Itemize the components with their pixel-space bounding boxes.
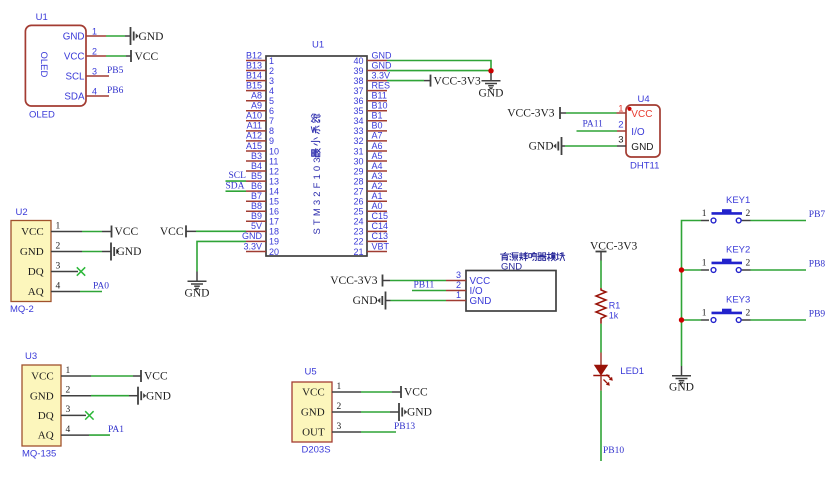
MCU right pin 25 A0 (353, 201, 387, 217)
MCU left pin 8 A11 (246, 121, 274, 137)
svg-text:B12: B12 (246, 50, 262, 60)
svg-text:PB5: PB5 (107, 66, 124, 76)
wire MCU pin19 to ground (197, 241, 246, 271)
MCU left pin 13 B5 (246, 171, 279, 187)
svg-text:33: 33 (353, 126, 363, 136)
svg-text:3: 3 (269, 76, 274, 86)
svg-text:U3: U3 (25, 351, 37, 362)
svg-text:VCC: VCC (302, 386, 325, 398)
MCU left pin 6 A9 (246, 101, 274, 117)
wire VCC-3V3 to U4 pin1 (566, 112, 617, 114)
MCU name CJK text 最小系统 (311, 114, 320, 157)
svg-text:35: 35 (353, 106, 363, 116)
svg-text:3: 3 (92, 67, 97, 77)
svg-text:VCC-3V3: VCC-3V3 (330, 275, 378, 287)
svg-text:2: 2 (269, 66, 274, 76)
svg-text:GND: GND (185, 288, 210, 300)
svg-text:GND: GND (669, 382, 694, 394)
wire U3 pin2 to GND (91, 395, 129, 397)
svg-text:A11: A11 (247, 121, 262, 131)
MCU right pin 30 A5 (353, 151, 387, 167)
svg-text:B5: B5 (251, 171, 262, 181)
no-connect X at U3 pin3 (85, 411, 93, 419)
wire R1 to LED1 (600, 324, 602, 353)
svg-text:4: 4 (56, 282, 61, 292)
wire U2 pin4 PA0 (80, 291, 102, 293)
power VCC-3V3 port at MCU pin38 (431, 75, 482, 88)
MCU right pin 35 B10 (353, 101, 387, 117)
svg-text:2: 2 (618, 120, 623, 131)
IC U4 DHT11 sensor (618, 94, 660, 171)
svg-text:16: 16 (269, 207, 279, 217)
MCU left pin 9 A12 (246, 131, 274, 147)
U3 pin3 stub with no-connect (61, 414, 86, 416)
svg-text:A4: A4 (372, 161, 383, 171)
wire SCL to MCU pin13 (226, 180, 247, 182)
svg-text:25: 25 (353, 207, 363, 217)
MCU right pin 34 B1 (353, 111, 387, 127)
svg-text:GND: GND (242, 231, 263, 241)
svg-text:B4: B4 (251, 161, 262, 171)
U4 pin1 stub (617, 112, 627, 114)
svg-text:15: 15 (269, 197, 279, 207)
svg-text:GND: GND (139, 31, 164, 43)
MCU left pin 10 A15 (246, 141, 279, 157)
ground GND port at U5 pin2 (399, 403, 432, 421)
MCU left pin 14 B6 (246, 181, 279, 197)
MCU left pin 12 B4 (246, 161, 279, 177)
MCU left pin 16 B8 (246, 201, 279, 217)
ground GND port at U2 pin2 (111, 243, 141, 261)
svg-text:U2: U2 (16, 207, 28, 218)
ground symbol below MCU pin19 (185, 281, 210, 299)
svg-text:VCC: VCC (31, 371, 54, 383)
svg-text:21: 21 (353, 247, 363, 257)
svg-text:SDA: SDA (64, 91, 85, 102)
svg-text:PB6: PB6 (107, 86, 124, 96)
svg-text:A2: A2 (372, 181, 383, 191)
svg-text:GND: GND (479, 88, 504, 100)
power VCC-3V3 port at U4 pin1 (507, 107, 560, 120)
svg-text:1: 1 (456, 290, 461, 300)
svg-text:31: 31 (353, 146, 363, 156)
MCU right pin 32 A7 (353, 131, 387, 147)
power VCC-3V3 port top of LED branch (590, 241, 638, 261)
U5 pin2 stub (332, 411, 361, 413)
IC U1 STM32F103 minimal system board (266, 40, 367, 257)
pin 4 stub U1 (86, 95, 109, 97)
svg-text:GND: GND (501, 261, 522, 272)
U4 pin3 stub (617, 145, 626, 147)
svg-text:C14: C14 (372, 221, 389, 231)
svg-text:OUT: OUT (302, 426, 325, 438)
svg-text:VCC: VCC (64, 51, 85, 62)
wire VCC to MCU pin18 (196, 230, 246, 232)
svg-text:VCC-3V3: VCC-3V3 (434, 75, 482, 87)
svg-text:A8: A8 (251, 91, 262, 101)
svg-text:3: 3 (56, 262, 61, 272)
svg-text:1: 1 (702, 259, 707, 269)
MCU right pin 29 A4 (353, 161, 387, 177)
svg-text:19: 19 (269, 237, 279, 247)
svg-text:GND: GND (301, 406, 325, 418)
MCU right pin 36 B11 (353, 91, 387, 107)
svg-text:OLED: OLED (29, 110, 55, 121)
svg-text:LED1: LED1 (620, 366, 644, 377)
MCU left pin 11 B3 (246, 151, 278, 167)
svg-text:14: 14 (269, 186, 279, 196)
svg-text:VCC: VCC (160, 226, 184, 238)
svg-text:1: 1 (269, 56, 274, 66)
svg-text:OLED: OLED (38, 52, 49, 78)
svg-text:11: 11 (269, 156, 278, 166)
svg-text:D203S: D203S (302, 445, 331, 456)
svg-text:GND: GND (353, 295, 378, 307)
svg-text:7: 7 (269, 116, 274, 126)
svg-text:GND: GND (146, 390, 171, 402)
svg-text:A6: A6 (372, 141, 383, 151)
svg-text:VCC: VCC (115, 226, 139, 238)
U2 pin3 stub with no-connect (51, 271, 78, 273)
svg-text:4: 4 (92, 87, 97, 97)
svg-text:27: 27 (353, 186, 363, 196)
svg-text:MQ-2: MQ-2 (10, 304, 34, 315)
pin 3 stub U1 (86, 75, 109, 77)
MCU left pin 4 B15 (246, 80, 274, 96)
svg-text:A5: A5 (372, 151, 383, 161)
power VCC-3V3 port at buzzer pin3 (330, 275, 382, 288)
ground symbol right of MCU (479, 73, 504, 100)
svg-text:U1: U1 (312, 40, 324, 51)
svg-text:5: 5 (269, 96, 274, 106)
U3 pin2 stub (61, 395, 91, 397)
svg-text:B3: B3 (251, 151, 262, 161)
svg-text:R1: R1 (609, 301, 621, 311)
svg-text:GND: GND (407, 407, 432, 419)
svg-text:B7: B7 (251, 191, 262, 201)
svg-text:DQ: DQ (28, 266, 44, 278)
junction dot GND net (488, 68, 493, 73)
U2 pin1 stub (51, 231, 82, 233)
svg-text:34: 34 (353, 116, 363, 126)
svg-text:SCL: SCL (229, 171, 247, 181)
wire KEY3 right to PB9 (751, 319, 807, 321)
svg-text:26: 26 (353, 197, 363, 207)
wire KEY2 left to bus (682, 269, 702, 271)
svg-text:A0: A0 (372, 201, 383, 211)
svg-text:A3: A3 (372, 171, 383, 181)
MCU left pin 7 A10 (246, 111, 274, 127)
svg-text:PB13: PB13 (394, 422, 415, 432)
svg-text:A7: A7 (372, 131, 383, 141)
svg-text:A9: A9 (251, 101, 262, 111)
svg-text:32: 32 (353, 136, 363, 146)
MCU right pin 28 A3 (353, 171, 387, 187)
svg-text:29: 29 (353, 166, 363, 176)
svg-text:17: 17 (269, 217, 279, 227)
MCU left pin 3 B14 (246, 70, 274, 86)
svg-text:3.3V: 3.3V (243, 241, 262, 251)
svg-text:VCC: VCC (144, 371, 168, 383)
MCU right pin 31 A6 (353, 141, 387, 157)
svg-text:PB11: PB11 (414, 281, 435, 291)
svg-text:24: 24 (353, 217, 363, 227)
power VCC port at MCU pin18 (160, 225, 186, 238)
svg-text:2: 2 (456, 280, 461, 290)
push button KEY1 (701, 195, 751, 223)
ground GND port at U1 pin1 (131, 27, 164, 45)
svg-text:B11: B11 (372, 91, 387, 101)
IC U1 OLED display connector (25, 12, 97, 121)
MCU right pin 26 A1 (353, 191, 387, 207)
svg-text:SDA: SDA (226, 181, 245, 191)
svg-text:VCC-3V3: VCC-3V3 (507, 108, 555, 120)
svg-text:5V: 5V (251, 221, 262, 231)
svg-text:GND: GND (372, 60, 393, 70)
wire U3 pin4 PA1 (89, 434, 110, 436)
svg-text:PB8: PB8 (809, 260, 826, 270)
wire U3 pin1 to VCC (91, 375, 133, 377)
svg-text:VCC: VCC (631, 109, 652, 120)
svg-text:KEY2: KEY2 (726, 245, 750, 256)
svg-text:RES: RES (372, 80, 391, 90)
svg-text:12: 12 (269, 166, 279, 176)
svg-text:38: 38 (353, 76, 363, 86)
wire VCC-3V3 to buzzer pin3 (390, 280, 446, 282)
svg-text:28: 28 (353, 176, 363, 186)
svg-text:GND: GND (470, 296, 492, 307)
MCU left pin 20 3.3V (243, 241, 279, 257)
wire KEY1 right to PB7 (751, 220, 807, 222)
MCU left pin 18 5V (246, 221, 279, 237)
svg-text:A1: A1 (372, 191, 383, 201)
svg-text:A15: A15 (246, 141, 262, 151)
svg-text:GND: GND (372, 50, 393, 60)
MCU right pin 23 C14 (353, 221, 388, 237)
ground GND port at U4 pin3 (529, 137, 562, 155)
ground symbol below keys (669, 366, 694, 394)
wire KEY3 left to bus (682, 319, 702, 321)
svg-text:B1: B1 (372, 111, 383, 121)
svg-text:PB9: PB9 (809, 310, 826, 320)
U3 pin4 stub (61, 434, 89, 436)
MCU right pin 27 A2 (353, 181, 387, 197)
svg-text:20: 20 (269, 247, 279, 257)
buzzer pin2 stub (446, 290, 466, 292)
svg-text:AQ: AQ (28, 286, 44, 298)
module title CJK 有源蜂鸣器模块 (501, 252, 565, 260)
svg-text:GND: GND (117, 246, 142, 258)
MCU left pin 1 B12 (246, 50, 274, 66)
svg-text:10: 10 (269, 146, 279, 156)
svg-text:STM32F103: STM32F103 (312, 154, 323, 234)
svg-text:AQ: AQ (38, 429, 54, 441)
svg-text:VCC: VCC (21, 226, 44, 238)
MCU right pin 33 B0 (353, 121, 387, 137)
svg-text:8: 8 (269, 126, 274, 136)
svg-text:4: 4 (66, 425, 71, 435)
wire KEY2 right to PB8 (751, 269, 807, 271)
wire GND to U4 pin3 (565, 145, 617, 147)
svg-text:I/O: I/O (631, 127, 645, 138)
svg-text:6: 6 (269, 106, 274, 116)
svg-text:B9: B9 (251, 211, 262, 221)
ground GND port at buzzer pin1 (353, 292, 386, 310)
svg-text:PA0: PA0 (93, 281, 109, 291)
svg-text:PB7: PB7 (809, 210, 826, 220)
svg-text:3.3V: 3.3V (372, 70, 391, 80)
push button KEY3 (701, 295, 751, 323)
svg-text:2: 2 (92, 47, 97, 57)
wire PB11 to buzzer pin2 (412, 290, 446, 292)
svg-text:B15: B15 (246, 80, 262, 90)
wire U5 pin3 PB13 (361, 431, 396, 433)
U2 pin2 stub (51, 251, 82, 253)
svg-text:18: 18 (269, 227, 279, 237)
LED LED1 (593, 353, 644, 391)
svg-text:VCC: VCC (135, 51, 159, 63)
no-connect X at U2 pin3 (77, 267, 85, 275)
buzzer pin1 stub (446, 300, 466, 302)
svg-text:DHT11: DHT11 (630, 161, 659, 172)
svg-text:22: 22 (353, 237, 363, 247)
IC U2 MQ-2 gas sensor (10, 207, 61, 315)
svg-text:3: 3 (337, 422, 342, 432)
svg-text:VCC: VCC (404, 387, 428, 399)
MCU left pin 5 A8 (246, 91, 274, 107)
U3 pin1 stub (61, 375, 91, 377)
MCU left pin 17 B9 (246, 211, 279, 227)
wire SDA to MCU pin14 (226, 190, 247, 192)
junction dot KEY2 bus (679, 267, 684, 272)
U5 pin1 stub (332, 391, 361, 393)
MCU left pin 15 B7 (246, 191, 279, 207)
svg-text:1: 1 (702, 309, 707, 319)
active buzzer module box (456, 261, 556, 311)
svg-text:KEY3: KEY3 (726, 295, 750, 306)
svg-text:2: 2 (746, 209, 751, 219)
power VCC port at U1 pin2 (131, 50, 158, 63)
svg-text:13: 13 (269, 176, 279, 186)
svg-text:2: 2 (746, 309, 751, 319)
svg-text:2: 2 (56, 242, 61, 252)
wire U1 pin1 to GND (106, 35, 125, 37)
svg-text:B0: B0 (372, 121, 383, 131)
ground GND port at U3 pin2 (138, 387, 171, 405)
power VCC port at U3 pin1 (141, 370, 168, 383)
wire MCU pin38 to VCC-3V3 (387, 80, 424, 82)
MCU left pin 2 B13 (246, 60, 274, 76)
MCU right pin 24 C15 (353, 211, 388, 227)
svg-text:GND: GND (63, 31, 85, 42)
svg-text:GND: GND (529, 141, 554, 153)
svg-text:1: 1 (702, 209, 707, 219)
svg-text:U5: U5 (305, 367, 317, 378)
svg-text:40: 40 (353, 56, 363, 66)
power VCC port at U2 pin1 (112, 226, 139, 239)
svg-text:A12: A12 (246, 131, 262, 141)
MCU right pin 37 RES (353, 80, 390, 96)
svg-text:2: 2 (746, 259, 751, 269)
svg-text:1: 1 (92, 27, 97, 37)
svg-text:DQ: DQ (38, 410, 54, 422)
svg-text:37: 37 (353, 86, 363, 96)
junction dot KEY3 bus (679, 317, 684, 322)
svg-text:30: 30 (353, 156, 363, 166)
buzzer pin3 stub (446, 280, 466, 282)
U5 pin3 stub (332, 431, 361, 433)
svg-text:GND: GND (30, 390, 54, 402)
IC U5 D203S PIR sensor (292, 367, 342, 456)
svg-text:B10: B10 (372, 101, 388, 111)
wire GND to buzzer pin1 (391, 300, 447, 302)
resistor R1 1k (596, 288, 620, 324)
wire U5 pin1 to VCC (361, 391, 392, 393)
svg-text:3: 3 (66, 405, 71, 415)
svg-text:PB10: PB10 (603, 446, 624, 456)
wire U2 pin1 to VCC (82, 231, 102, 233)
svg-text:B14: B14 (246, 70, 262, 80)
svg-text:23: 23 (353, 227, 363, 237)
pin 2 stub U1 (86, 55, 106, 57)
svg-text:B6: B6 (251, 181, 262, 191)
svg-text:1k: 1k (609, 310, 619, 320)
pin 1 stub U1 (86, 35, 106, 37)
svg-text:MQ-135: MQ-135 (22, 449, 56, 460)
MCU right pin 22 C13 (353, 231, 388, 247)
MCU right pin 21 VBT (353, 241, 389, 257)
svg-text:PA1: PA1 (108, 425, 124, 435)
svg-text:1: 1 (56, 222, 61, 232)
svg-text:36: 36 (353, 96, 363, 106)
svg-text:3: 3 (456, 270, 461, 280)
wire LED1 to PB10 (600, 391, 602, 461)
power VCC port at U5 pin1 (401, 386, 428, 399)
svg-text:KEY1: KEY1 (726, 195, 750, 206)
svg-text:2: 2 (66, 386, 71, 396)
wire MCU pin40 GND (387, 61, 491, 72)
svg-text:2: 2 (337, 402, 342, 412)
IC U3 MQ-135 gas sensor (22, 351, 71, 460)
U4 pin2 stub (617, 130, 626, 132)
svg-text:U1: U1 (36, 12, 48, 23)
wire U5 pin2 to GND (361, 411, 390, 413)
svg-text:4: 4 (269, 86, 274, 96)
svg-text:B13: B13 (246, 60, 262, 70)
wire U1 pin2 to VCC (106, 55, 126, 57)
svg-text:U4: U4 (638, 94, 650, 105)
svg-text:A10: A10 (246, 111, 262, 121)
svg-text:GND: GND (631, 142, 653, 153)
MCU right pin 40 GND (353, 50, 392, 66)
MCU right pin 38 3.3V (353, 70, 390, 86)
svg-text:3: 3 (618, 135, 623, 146)
svg-text:1: 1 (337, 382, 342, 392)
svg-text:C13: C13 (372, 231, 389, 241)
wire U2 pin2 to GND (82, 251, 102, 253)
svg-text:9: 9 (269, 136, 274, 146)
svg-text:1: 1 (66, 366, 71, 376)
svg-text:B8: B8 (251, 201, 262, 211)
svg-text:C15: C15 (372, 211, 389, 221)
svg-text:39: 39 (353, 66, 363, 76)
svg-text:GND: GND (20, 246, 44, 258)
MCU left pin 19 GND (242, 231, 279, 247)
wire VCC-3V3 to R1 (600, 261, 602, 289)
MCU right pin 39 GND (353, 60, 392, 76)
svg-text:SCL: SCL (65, 71, 85, 82)
svg-text:PA11: PA11 (583, 119, 604, 129)
